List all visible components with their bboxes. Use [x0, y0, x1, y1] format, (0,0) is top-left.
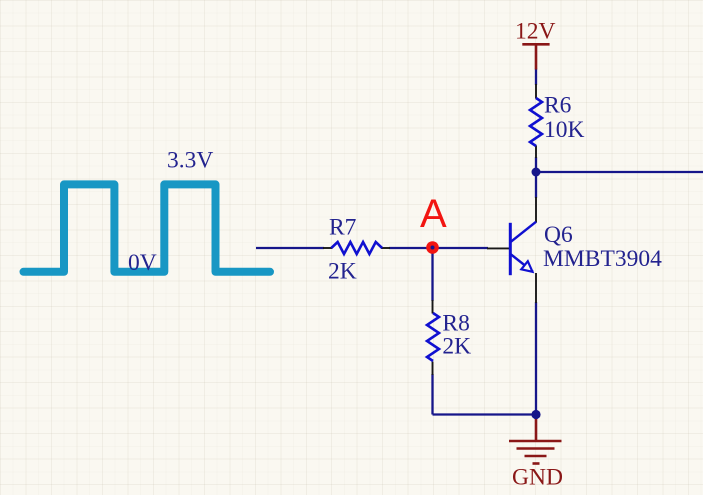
- svg-text:10K: 10K: [544, 117, 585, 143]
- svg-text:R8: R8: [442, 311, 469, 337]
- svg-text:R6: R6: [544, 92, 572, 118]
- svg-text:2K: 2K: [442, 334, 471, 360]
- svg-text:Q6: Q6: [544, 222, 573, 248]
- svg-text:MMBT3904: MMBT3904: [543, 246, 662, 272]
- svg-text:A: A: [420, 192, 447, 236]
- svg-text:2K: 2K: [328, 258, 357, 284]
- svg-text:0V: 0V: [128, 250, 157, 276]
- svg-text:3.3V: 3.3V: [167, 148, 213, 174]
- svg-text:R7: R7: [329, 215, 357, 241]
- svg-text:12V: 12V: [515, 19, 556, 45]
- svg-text:GND: GND: [512, 465, 563, 491]
